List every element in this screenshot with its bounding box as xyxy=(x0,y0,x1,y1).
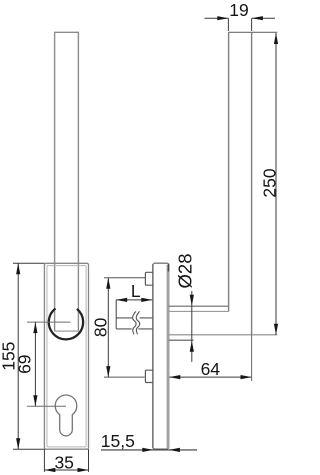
front backplate outer xyxy=(44,263,88,449)
dim L arrow right xyxy=(141,298,152,302)
dim 64 arrow right xyxy=(241,375,252,379)
dim 155 extension bottom xyxy=(13,448,44,450)
dim 155 arrow up xyxy=(16,263,20,274)
dim 35 line xyxy=(44,469,88,471)
svg-text:15,5: 15,5 xyxy=(101,431,135,451)
neck bottom line with 250 extension xyxy=(169,334,278,336)
cylinder centerline xyxy=(27,405,66,407)
neck lower line xyxy=(169,339,194,341)
dim 35 extension right xyxy=(88,449,90,472)
dim L extension left xyxy=(115,300,117,318)
dim 19 extension right xyxy=(251,18,253,31)
dim diameter 28 line xyxy=(191,291,193,362)
side plate top right corner accent xyxy=(168,264,170,272)
fixing boss bottom xyxy=(145,370,153,382)
dim 28 arrow down (above neck) xyxy=(190,295,194,306)
dim 19 left shaft xyxy=(205,17,229,19)
dim 155 line xyxy=(17,263,19,449)
neck top line xyxy=(169,305,229,307)
handle hub collar (circle arc visible around grip bar) xyxy=(49,309,83,340)
spindle left end xyxy=(115,318,117,329)
front grip bar bottom end xyxy=(55,330,79,332)
side view plate xyxy=(153,263,169,449)
dim 15,5 arrow pointing left xyxy=(169,448,180,452)
dim 35 extension left xyxy=(43,449,45,472)
dim 250 arrow down xyxy=(274,324,278,335)
dim 250 arrow up xyxy=(274,33,278,44)
dim L arrow left xyxy=(116,298,127,302)
bar right edge extension for dim 64 xyxy=(251,335,253,381)
dim 35 arrow right xyxy=(78,468,89,472)
dim 69 line xyxy=(34,322,36,406)
dim L line xyxy=(116,299,152,301)
dim 80 line xyxy=(107,278,109,377)
dim 155 arrow down xyxy=(16,438,20,449)
spindle shaft bottom edge xyxy=(116,328,152,330)
svg-text:35: 35 xyxy=(54,453,73,473)
side plate inner highlight line xyxy=(167,265,170,448)
dim 80 bottom tail line xyxy=(104,376,145,378)
svg-text:19: 19 xyxy=(229,0,248,20)
side grip bar right edge xyxy=(251,32,253,335)
side grip bar top edge with 250 extension xyxy=(229,31,278,33)
dim 15,5 arrow pointing right xyxy=(142,448,153,452)
dim 80 arrow up xyxy=(106,278,110,289)
spindle break squiggle 2 xyxy=(136,311,140,334)
dim 64 line xyxy=(169,376,251,378)
dim 15,5 line xyxy=(101,449,197,451)
neck upper inner line xyxy=(169,310,229,312)
dim 69 arrow up xyxy=(33,322,37,333)
svg-text:250: 250 xyxy=(260,168,280,197)
spindle break squiggle 1 xyxy=(133,311,137,334)
dim 19 arrow pointing left xyxy=(252,16,263,20)
dim 35 arrow left xyxy=(44,468,55,472)
dim 19 right shaft xyxy=(252,17,275,19)
fixing boss top xyxy=(145,272,153,285)
svg-text:Ø28: Ø28 xyxy=(174,254,195,289)
dim 28 arrow up (below neck) xyxy=(190,341,194,352)
dim 19 arrow pointing right xyxy=(217,16,228,20)
svg-text:64: 64 xyxy=(201,359,221,379)
dim 64 arrow left xyxy=(169,375,180,379)
dim 250 line xyxy=(275,33,277,335)
svg-text:69: 69 xyxy=(15,354,35,373)
spindle shaft top edge xyxy=(116,317,152,319)
front backplate inner edge xyxy=(47,266,86,447)
front view grip bar xyxy=(55,32,79,331)
side grip bar left edge xyxy=(228,32,230,311)
euro cylinder hole xyxy=(55,395,77,436)
dim 80 top tail line xyxy=(104,277,145,279)
svg-text:80: 80 xyxy=(90,317,110,337)
hub centerline xyxy=(27,321,71,323)
dim 69 arrow down xyxy=(33,395,37,406)
dim 19 extension left xyxy=(227,18,229,31)
side plate left edge accent xyxy=(152,264,154,449)
dim 80 arrow down xyxy=(106,366,110,377)
dim 155 extension top xyxy=(13,262,44,264)
svg-text:L: L xyxy=(131,281,141,301)
